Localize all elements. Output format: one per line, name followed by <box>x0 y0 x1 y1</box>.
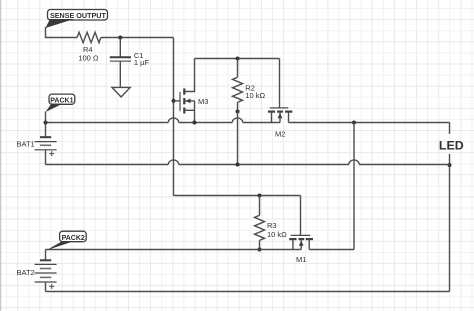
label R4 100 ohm <box>78 45 99 62</box>
wire: M2 gate riser <box>279 59 281 108</box>
transistor M1 <box>289 235 313 249</box>
battery BAT2 <box>35 250 57 292</box>
svg-text:PACK2: PACK2 <box>62 235 85 242</box>
svg-text:100 Ω: 100 Ω <box>78 53 99 62</box>
node: M3 source on main rail <box>193 121 197 125</box>
net label PACK1 <box>46 94 75 122</box>
battery BAT1 <box>35 123 57 165</box>
resistor R4 <box>77 32 101 42</box>
wire: R2 bottom down to BAT1+ net <box>237 112 239 165</box>
net label PACK2 <box>47 231 87 250</box>
wire: BAT2 + bottom rail <box>46 291 450 293</box>
node: right rail junction <box>448 163 452 167</box>
svg-text:BAT2: BAT2 <box>17 268 35 277</box>
wire: M1 drain vertical <box>353 123 355 250</box>
svg-text:M3: M3 <box>198 97 208 106</box>
svg-text:M1: M1 <box>296 255 306 264</box>
label R3 10 kohm <box>267 221 287 239</box>
svg-text:M2: M2 <box>275 129 285 138</box>
wire: SENSE OUTPUT tail to R4 <box>46 27 78 38</box>
wire: sense net vertical <box>173 38 175 196</box>
capacitor C1 <box>110 38 131 88</box>
wire: R4 to corner of sense net <box>101 37 174 39</box>
wire: sense net horizontal run to M1 gate <box>174 195 301 197</box>
transistor M3 <box>174 59 195 123</box>
svg-text:10 kΩ: 10 kΩ <box>245 91 265 100</box>
label C1 1uF <box>134 51 150 67</box>
node: M1 drain branch <box>352 121 356 125</box>
transistor M2 <box>268 108 292 123</box>
wire: BAT1 + net (with hops) <box>46 160 450 165</box>
wire: M1 source to drain riser <box>309 249 354 251</box>
node: R3 top tap <box>258 194 262 198</box>
node: R2 bottom pin <box>236 110 240 114</box>
wire: main positive rail (with hops) <box>46 118 450 123</box>
resistor R3 <box>255 196 265 250</box>
svg-text:SENSE OUTPUT: SENSE OUTPUT <box>50 11 107 20</box>
node: M3 gate tap <box>172 99 176 103</box>
svg-text:1 µF: 1 µF <box>134 58 150 67</box>
node: BAT1 top / PACK1 tap <box>44 121 48 125</box>
svg-text:BAT1: BAT1 <box>17 139 35 148</box>
svg-text:R3: R3 <box>267 221 277 230</box>
svg-text:10 kΩ: 10 kΩ <box>267 230 287 239</box>
node: R3 bottom <box>258 248 262 252</box>
svg-text:LED: LED <box>439 139 464 153</box>
wire: BAT2 top net <box>46 249 302 251</box>
net label SENSE OUTPUT <box>46 10 108 29</box>
wire: LED stub lower <box>449 154 451 292</box>
label R2 10 kohm <box>245 83 265 100</box>
node: R2 top <box>236 57 240 61</box>
wire: M1 gate riser <box>300 196 302 236</box>
ground <box>112 87 130 97</box>
svg-text:PACK1: PACK1 <box>50 98 73 105</box>
wire: M3 drain to M2 gate net <box>195 58 280 60</box>
resistor R2 <box>233 59 243 112</box>
wire: LED stub upper <box>449 123 451 134</box>
node: R2 bottom on BAT1+ net <box>236 163 240 167</box>
node: R4/C1 junction <box>118 36 122 40</box>
